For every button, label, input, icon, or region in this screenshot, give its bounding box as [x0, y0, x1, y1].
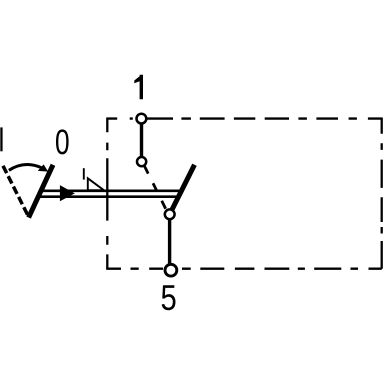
- linkage double line bottom: [37, 195, 179, 198]
- label 0 (position 0): [56, 129, 69, 154]
- wire pivot to terminal 5: [168, 214, 171, 268]
- fixed contact circle: [137, 157, 146, 166]
- linkage arrowhead: [60, 185, 75, 201]
- terminal 1 circle: [137, 114, 147, 124]
- actuator lever dashed (position I): [3, 166, 29, 217]
- movement arc arrowhead: [38, 164, 48, 171]
- latch detent tick: [83, 168, 85, 179]
- latch detent triangle: [88, 178, 104, 190]
- terminal 5 circle: [165, 264, 177, 276]
- label 5 (terminal 5): [162, 285, 176, 310]
- movement arc arrow: [9, 165, 42, 171]
- moving contact lever: [170, 165, 195, 215]
- housing outline bottom edge (dash-dot): [106, 268, 382, 270]
- wire terminal1 to fixed contact: [140, 119, 143, 162]
- dashed alternate contact position: [144, 166, 166, 210]
- housing outline left edge (dash-dot): [106, 118, 108, 269]
- linkage double line top: [40, 190, 182, 193]
- label I (position I): [0, 127, 2, 151]
- housing outline right edge (dash-dot): [381, 118, 383, 269]
- actuator lever solid (position 0): [29, 165, 53, 218]
- label 1 (terminal 1): [134, 75, 143, 100]
- pivot contact circle: [165, 209, 175, 219]
- housing outline top edge (dash-dot): [107, 117, 382, 119]
